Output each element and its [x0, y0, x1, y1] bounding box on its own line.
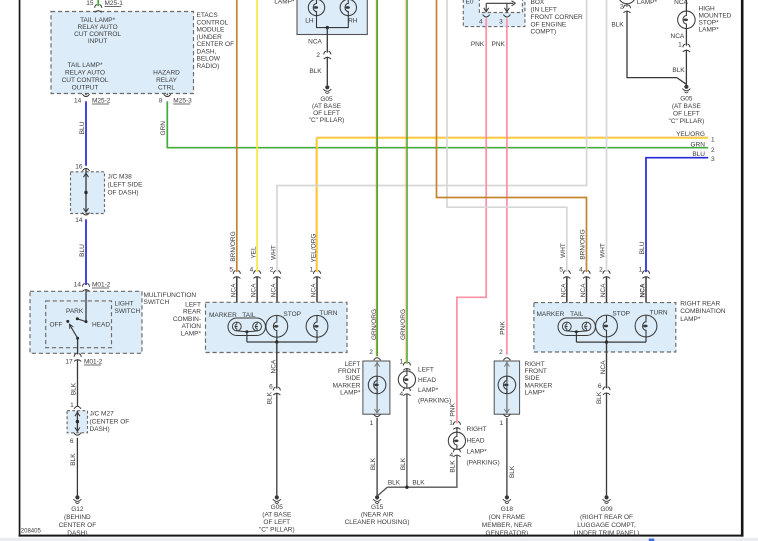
svg-text:NCA: NCA	[308, 39, 322, 46]
wire WHT to right marker	[447, 0, 567, 272]
svg-text:NCA: NCA	[600, 360, 607, 374]
connector M25-1 pin 15	[95, 5, 102, 13]
wire BLK to ground G05 left rear	[276, 393, 278, 496]
svg-text:6: 6	[269, 383, 273, 390]
license plate lamp box	[297, 0, 367, 35]
svg-text:1: 1	[639, 267, 643, 274]
svg-text:6: 6	[598, 383, 602, 390]
svg-text:"C" PILLAR): "C" PILLAR)	[309, 117, 345, 124]
svg-text:OF ENGINE: OF ENGINE	[531, 21, 567, 28]
connector pin 2 right marker	[503, 358, 510, 360]
svg-text:REAR: REAR	[183, 309, 201, 316]
svg-text:SIDE: SIDE	[525, 375, 541, 382]
svg-text:3: 3	[711, 156, 715, 163]
license lamp LH	[308, 0, 324, 16]
svg-text:LAMP*: LAMP*	[680, 316, 701, 323]
svg-text:BLK: BLK	[672, 67, 685, 74]
connector pin 1 left	[313, 271, 320, 279]
svg-text:1: 1	[399, 359, 403, 366]
svg-text:WHT: WHT	[600, 243, 607, 258]
svg-text:BLK: BLK	[267, 391, 274, 404]
svg-text:TURN: TURN	[650, 309, 668, 316]
svg-text:2: 2	[270, 267, 274, 274]
svg-text:STOP: STOP	[283, 311, 301, 318]
svg-text:LAMP*: LAMP*	[637, 0, 658, 6]
wire BLK tail lamp to ground	[627, 11, 677, 78]
wire BLK to ground G12	[76, 438, 78, 496]
wire GRN/ORG to left front marker	[376, 0, 378, 356]
svg-text:OUTPUT: OUTPUT	[72, 84, 99, 91]
tail lamp (cut off at top)	[618, 0, 635, 4]
svg-text:M01-2: M01-2	[92, 282, 111, 289]
svg-text:14: 14	[75, 217, 83, 224]
svg-text:NCA: NCA	[671, 33, 685, 40]
svg-text:BRN/ORG: BRN/ORG	[230, 231, 237, 261]
connector pin 5 left	[233, 271, 240, 279]
svg-text:LEFT: LEFT	[185, 301, 201, 308]
svg-text:(LEFT SIDE: (LEFT SIDE	[108, 182, 144, 189]
svg-text:6: 6	[70, 438, 74, 445]
svg-text:MODULE: MODULE	[197, 26, 225, 33]
svg-text:(AT BASE: (AT BASE	[672, 103, 702, 110]
svg-text:G05: G05	[320, 96, 333, 103]
bus bar with arrows	[486, 2, 513, 4]
connector pin 4 left head lamp	[403, 388, 410, 396]
svg-text:COMPT): COMPT)	[531, 29, 557, 36]
svg-text:BLU: BLU	[692, 151, 705, 158]
svg-text:COMBIN-: COMBIN-	[173, 316, 201, 323]
svg-text:4: 4	[399, 391, 403, 398]
svg-text:2: 2	[620, 4, 624, 11]
connector pin 2 left marker	[374, 358, 381, 360]
wire BLK left head lamp to junction	[406, 393, 408, 487]
ground G05 (left rear lamp)	[275, 495, 279, 499]
svg-text:PNK: PNK	[471, 41, 485, 48]
wire BLK to ground G05	[326, 57, 328, 86]
svg-text:LIGHT: LIGHT	[115, 301, 134, 308]
wire YEL/ORG net 1	[317, 137, 708, 139]
lamp bus left	[247, 341, 317, 343]
svg-text:ATION: ATION	[182, 323, 202, 330]
svg-text:MARKER: MARKER	[209, 312, 237, 319]
svg-text:5: 5	[559, 267, 563, 274]
connector pin 5 right	[563, 271, 570, 279]
svg-text:OF DASH): OF DASH)	[108, 190, 139, 197]
connector pin 1	[74, 406, 81, 408]
svg-text:RH: RH	[348, 18, 358, 25]
svg-text:HEAD: HEAD	[467, 437, 485, 444]
svg-text:M25-3: M25-3	[173, 98, 192, 105]
svg-text:CENTER OF: CENTER OF	[197, 41, 235, 48]
svg-text:G05: G05	[271, 504, 284, 511]
svg-text:PARK: PARK	[66, 308, 84, 315]
svg-text:BLK: BLK	[412, 480, 425, 487]
svg-text:NCA: NCA	[270, 359, 277, 373]
wire PNK to right head lamp	[457, 18, 486, 423]
right front side marker lamp box	[494, 361, 519, 414]
svg-text:DASH): DASH)	[90, 426, 110, 433]
junction dot head lamp grounds	[405, 486, 408, 489]
svg-text:BLK: BLK	[509, 465, 516, 478]
wire WHT to right stop	[606, 0, 608, 272]
svg-text:MOUNTED: MOUNTED	[699, 12, 732, 19]
connector pin 4 right	[583, 271, 590, 279]
svg-text:16: 16	[75, 163, 83, 170]
svg-text:BLU: BLU	[79, 244, 86, 257]
lead stubs into right rear lamp	[566, 277, 568, 323]
lamp bus right	[576, 341, 646, 343]
ETACS control module U1	[51, 12, 194, 94]
svg-text:4: 4	[449, 452, 453, 459]
svg-text:2: 2	[711, 147, 715, 154]
wire GRN/ORG to left head lamp	[406, 0, 408, 364]
svg-text:RIGHT: RIGHT	[525, 361, 545, 368]
svg-text:M01-2: M01-2	[84, 359, 103, 366]
svg-text:14: 14	[74, 282, 82, 289]
wire GRN net 2	[167, 101, 708, 147]
svg-text:2: 2	[599, 267, 603, 274]
svg-text:WHT: WHT	[270, 245, 277, 260]
wire BLK to ground G09	[606, 393, 608, 496]
svg-text:FRONT CORNER: FRONT CORNER	[531, 14, 584, 21]
svg-text:STOP*: STOP*	[699, 19, 720, 26]
wire BLU net 3	[646, 158, 708, 272]
svg-text:LAMP*: LAMP*	[525, 390, 546, 397]
connector pin 4 left	[254, 271, 261, 279]
svg-text:1: 1	[678, 42, 682, 49]
svg-text:PNK: PNK	[500, 321, 507, 335]
connector pin 1 left head lamp	[403, 362, 410, 370]
left head lamp bulb	[406, 368, 408, 371]
license lamp RH	[340, 0, 356, 16]
connector pin 4 relay box	[483, 15, 490, 17]
svg-text:BLK: BLK	[370, 457, 377, 470]
svg-text:MULTIFUNCTION: MULTIFUNCTION	[144, 292, 197, 299]
svg-text:BLK: BLK	[596, 391, 603, 404]
svg-text:208405: 208405	[21, 528, 42, 534]
ground G18	[505, 495, 509, 499]
svg-text:(AT BASE: (AT BASE	[262, 512, 292, 519]
svg-text:RADIO): RADIO)	[197, 63, 220, 70]
svg-text:BLK: BLK	[611, 21, 624, 28]
wire BLK to ground G18	[506, 418, 508, 496]
svg-text:RELAY: RELAY	[156, 77, 177, 84]
svg-text:LAMP*: LAMP*	[699, 26, 720, 33]
svg-text:(PARKING): (PARKING)	[418, 398, 451, 405]
svg-text:TAIL LAMP*: TAIL LAMP*	[80, 17, 116, 24]
right head lamp bulb	[456, 427, 458, 432]
wire BRN/ORG to right tail	[437, 0, 587, 272]
svg-text:NCA: NCA	[674, 0, 688, 6]
svg-text:(BEHIND: (BEHIND	[64, 514, 91, 521]
svg-text:(NEAR AIR: (NEAR AIR	[361, 511, 394, 518]
wire BLU pin14 to J/C M38	[85, 101, 87, 166]
svg-text:1: 1	[711, 136, 715, 143]
ground G05 (right)	[684, 85, 688, 89]
wire to pin 6 left	[276, 342, 278, 389]
connector pin 4 right head lamp	[453, 449, 460, 457]
svg-text:BLK: BLK	[400, 457, 407, 470]
light switch box	[46, 301, 112, 348]
svg-text:COMBINATION: COMBINATION	[680, 308, 726, 315]
wire BRN/ORG to left marker	[236, 0, 238, 272]
svg-text:G18: G18	[501, 506, 514, 513]
svg-text:"C" PILLAR): "C" PILLAR)	[669, 118, 705, 125]
svg-text:2: 2	[369, 349, 373, 356]
connector pin 6	[74, 433, 81, 435]
wire BLK right head lamp to G15 bus	[387, 455, 457, 488]
svg-text:ETACS: ETACS	[197, 12, 219, 19]
switch wiper	[69, 324, 77, 338]
connector pin 2	[324, 51, 331, 59]
svg-text:MARKER: MARKER	[525, 382, 553, 389]
wire BLK switch to J/C M27	[77, 360, 79, 407]
ground G05 (license lamps)	[325, 85, 329, 89]
connector pin 2 tail lamp	[623, 5, 630, 13]
svg-text:3: 3	[499, 19, 503, 26]
svg-text:MARKER: MARKER	[536, 311, 564, 318]
connector M01-2 pin 14	[82, 284, 89, 292]
svg-text:FRONT: FRONT	[338, 368, 360, 375]
svg-text:2: 2	[316, 52, 320, 59]
connector pin 2 right	[603, 271, 610, 279]
multifunction switch box	[30, 291, 142, 353]
wire BLK to ground G15	[376, 418, 378, 496]
relay box (engine compartment)	[463, 0, 525, 27]
svg-text:LAMP*: LAMP*	[274, 0, 295, 5]
svg-text:OF LEFT: OF LEFT	[263, 519, 290, 526]
svg-text:(ON FRAME: (ON FRAME	[489, 514, 526, 521]
svg-text:HEAD: HEAD	[418, 377, 436, 384]
wire to pin 6 right	[606, 342, 608, 388]
ground G09	[604, 495, 608, 499]
turn lamp left	[306, 315, 328, 337]
svg-text:(IN LEFT: (IN LEFT	[531, 6, 557, 13]
svg-text:FRONT: FRONT	[525, 368, 547, 375]
svg-text:SWITCH: SWITCH	[115, 308, 141, 315]
svg-text:RIGHT: RIGHT	[467, 426, 487, 433]
svg-text:LAMP*: LAMP*	[340, 390, 361, 397]
svg-text:(RIGHT REAR OF: (RIGHT REAR OF	[580, 514, 633, 521]
svg-text:TAIL: TAIL	[570, 311, 584, 318]
svg-text:(PARKING): (PARKING)	[467, 460, 500, 467]
svg-text:4: 4	[579, 267, 583, 274]
svg-text:4: 4	[479, 19, 483, 26]
svg-text:YEL/ORG: YEL/ORG	[676, 131, 705, 138]
svg-text:(UNDER: (UNDER	[197, 34, 223, 41]
svg-text:GRN: GRN	[691, 141, 706, 148]
svg-text:CTRL: CTRL	[158, 84, 175, 91]
svg-text:BELOW: BELOW	[197, 56, 221, 63]
wire WHT to left stop	[277, 0, 587, 272]
svg-text:UNDER TRIM PANEL): UNDER TRIM PANEL)	[574, 530, 640, 537]
connector pin 6 left	[273, 387, 280, 395]
svg-text:G12: G12	[71, 506, 84, 513]
ground G15	[375, 495, 379, 499]
svg-text:GRN: GRN	[160, 121, 167, 136]
svg-text:1: 1	[449, 420, 453, 427]
junction block J/C M38	[71, 172, 105, 214]
svg-text:HEAD: HEAD	[92, 321, 110, 328]
svg-text:G15: G15	[371, 504, 384, 511]
svg-text:LEFT: LEFT	[418, 366, 434, 373]
svg-text:(CENTER OF: (CENTER OF	[90, 418, 130, 425]
svg-text:4: 4	[250, 267, 254, 274]
svg-text:GENERATOR): GENERATOR)	[486, 530, 529, 537]
svg-text:1: 1	[370, 420, 374, 427]
svg-text:CUT CONTROL: CUT CONTROL	[74, 31, 121, 38]
connector pin 1 left marker	[374, 414, 381, 416]
high mounted stop lamp	[685, 0, 687, 11]
svg-text:WHT: WHT	[560, 243, 567, 258]
svg-text:(AT BASE: (AT BASE	[312, 103, 342, 110]
svg-text:BLK: BLK	[388, 480, 401, 487]
connector pin 1 stop lamp	[683, 44, 690, 52]
svg-text:G09: G09	[600, 506, 613, 513]
dual filament lamp (marker/tail)	[228, 318, 266, 336]
lead stubs into left rear lamp	[236, 277, 238, 323]
svg-text:LAMP*: LAMP*	[418, 387, 439, 394]
diagonal to ground G15	[378, 487, 388, 496]
svg-text:8: 8	[159, 98, 163, 105]
connector pin 3 relay box	[503, 15, 510, 17]
ground G12	[75, 495, 79, 499]
svg-text:BLK: BLK	[70, 453, 77, 466]
svg-text:RIGHT REAR: RIGHT REAR	[680, 300, 720, 307]
left front marker lamp bulb	[368, 376, 386, 394]
svg-text:SWITCH: SWITCH	[144, 299, 170, 306]
left rear combination lamp box	[206, 302, 348, 352]
svg-text:BLK: BLK	[309, 68, 322, 75]
svg-text:M25-1: M25-1	[105, 0, 124, 7]
svg-text:17: 17	[65, 359, 73, 366]
svg-text:MARKER: MARKER	[333, 382, 361, 389]
svg-text:J/C M27: J/C M27	[90, 411, 115, 418]
svg-text:CONTROL: CONTROL	[197, 19, 229, 26]
connector pin 14 below M38	[83, 213, 90, 215]
svg-text:RELAY AUTO: RELAY AUTO	[65, 69, 105, 76]
svg-text:BOX: BOX	[531, 0, 545, 6]
connector pin 2 left	[273, 271, 280, 279]
connector pin 1 right	[642, 271, 649, 279]
svg-text:LAMP*: LAMP*	[181, 330, 202, 337]
svg-text:LAMP*: LAMP*	[467, 448, 488, 455]
svg-text:HIGH: HIGH	[699, 5, 716, 12]
svg-text:TAIL LAMP*: TAIL LAMP*	[67, 62, 103, 69]
dual filament lamp (marker/tail) right	[558, 318, 595, 336]
svg-text:15: 15	[86, 0, 94, 7]
svg-text:RELAY AUTO: RELAY AUTO	[78, 24, 118, 31]
svg-text:G05: G05	[680, 96, 693, 103]
svg-text:1: 1	[499, 420, 503, 427]
svg-text:YEL/ORG: YEL/ORG	[310, 234, 317, 263]
svg-text:OFF: OFF	[50, 321, 63, 328]
svg-text:1: 1	[70, 402, 74, 409]
svg-text:LH: LH	[305, 18, 314, 25]
svg-text:2: 2	[499, 349, 503, 356]
connector pin 16	[83, 168, 90, 170]
svg-text:OF LEFT: OF LEFT	[673, 111, 700, 118]
wire PNK to right front marker	[506, 18, 508, 354]
connector M25-2 pin 14	[85, 94, 87, 96]
svg-text:5: 5	[229, 267, 233, 274]
svg-text:INPUT: INPUT	[88, 38, 108, 45]
connector pin 1 right head lamp	[453, 422, 460, 430]
right front marker lamp bulb	[498, 376, 516, 394]
svg-text:OF LEFT: OF LEFT	[313, 110, 340, 117]
svg-text:PNK: PNK	[492, 41, 506, 48]
svg-text:BLU: BLU	[79, 121, 86, 134]
wire BLU M38 to multifunction switch	[85, 219, 87, 285]
svg-text:LEFT: LEFT	[344, 361, 360, 368]
svg-text:SIDE: SIDE	[345, 375, 361, 382]
connector M01-2 pin 17	[74, 354, 81, 362]
svg-text:J/C M38: J/C M38	[108, 174, 133, 181]
svg-text:DASH): DASH)	[67, 530, 87, 537]
svg-text:CENTER OF: CENTER OF	[59, 522, 97, 529]
wire YEL to left tail	[256, 0, 258, 272]
svg-text:CUT CONTROL: CUT CONTROL	[62, 77, 109, 84]
svg-text:BLU: BLU	[639, 241, 646, 254]
svg-text:BLK: BLK	[70, 382, 77, 395]
svg-text:"C" PILLAR): "C" PILLAR)	[259, 527, 295, 534]
connector M25-3 pin 8	[166, 94, 168, 96]
stop lamp left	[266, 315, 288, 337]
svg-text:YEL: YEL	[250, 246, 257, 259]
svg-text:M25-2: M25-2	[92, 98, 111, 105]
turn lamp right	[635, 315, 657, 337]
light switch contacts	[85, 291, 87, 321]
svg-text:BRN/ORG: BRN/ORG	[580, 229, 587, 259]
wire BLK to ground G05 right	[685, 50, 687, 85]
junction block J/C M27	[67, 411, 87, 433]
svg-text:1: 1	[310, 267, 314, 274]
svg-text:MEMBER, NEAR: MEMBER, NEAR	[482, 522, 533, 529]
stop lamp right	[596, 315, 618, 337]
connector pin 1 right marker	[503, 414, 510, 416]
svg-text:LUGGAGE COMPT,: LUGGAGE COMPT,	[577, 522, 636, 529]
svg-text:TURN: TURN	[319, 310, 337, 317]
right rear combination lamp box	[534, 303, 676, 352]
svg-text:CLEANER HOUSING): CLEANER HOUSING)	[345, 519, 410, 526]
svg-text:PNK: PNK	[450, 403, 457, 417]
svg-text:E0: E0	[466, 0, 474, 5]
svg-text:HAZARD: HAZARD	[153, 69, 180, 76]
wire GRN stub at pin 15	[97, 0, 99, 6]
svg-text:STOP: STOP	[612, 311, 630, 318]
lamp leads junction	[317, 16, 349, 28]
left front side marker lamp box	[363, 361, 390, 414]
svg-text:GRN/ORG: GRN/ORG	[400, 309, 407, 340]
svg-text:BLK: BLK	[450, 460, 457, 473]
svg-text:GRN/ORG: GRN/ORG	[371, 309, 378, 340]
connector pin 6 right	[603, 387, 610, 395]
svg-text:14: 14	[74, 98, 82, 105]
svg-text:DASH,: DASH,	[197, 48, 217, 55]
